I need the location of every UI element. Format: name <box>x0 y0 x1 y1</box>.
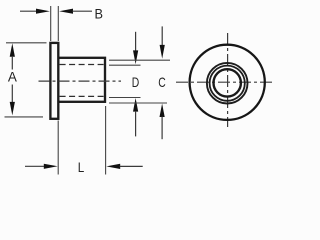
svg-text:A: A <box>8 69 18 85</box>
svg-text:L: L <box>78 159 85 175</box>
dim B extension right <box>57 6 59 41</box>
dim B right arrow tail <box>72 10 92 12</box>
dim D extension bottom <box>109 97 141 99</box>
dim L right arrow tail <box>120 165 143 167</box>
dim D extension top <box>109 64 141 66</box>
dim B left arrowhead <box>36 9 50 14</box>
side view: bushing body <box>58 58 105 102</box>
dim A line lower <box>11 85 13 103</box>
dim C bottom arrow tail <box>161 117 163 140</box>
dim C extension bottom <box>109 102 167 104</box>
svg-text:D: D <box>132 74 140 90</box>
bore hidden line bottom <box>60 95 104 97</box>
dim D bottom arrow tail <box>135 111 137 136</box>
dim B right arrowhead <box>59 9 73 14</box>
dim D top arrowhead <box>133 50 138 64</box>
front view bore circle <box>214 69 241 96</box>
dim C extension top <box>109 59 170 61</box>
dim A arrow up <box>10 43 15 57</box>
front view horizontal centerline <box>176 81 274 83</box>
dim C top arrow tail <box>161 26 163 45</box>
dim A extension top <box>6 42 47 44</box>
front view bore chamfer circle <box>210 66 245 101</box>
dim C bottom arrowhead <box>160 104 165 118</box>
front view body circle <box>207 63 248 104</box>
dim L extension left <box>57 121 59 175</box>
dim B left arrow tail <box>20 10 38 12</box>
front view vertical centerline <box>227 33 229 127</box>
dim L right arrowhead <box>106 164 120 169</box>
dim B extension left <box>50 6 52 41</box>
svg-text:B: B <box>95 6 104 22</box>
svg-text:C: C <box>158 74 166 90</box>
dim L left arrowhead <box>44 164 58 169</box>
dim C top arrowhead <box>160 45 165 59</box>
bore hidden line top <box>60 64 104 66</box>
dim A arrow down <box>10 102 15 116</box>
dim A line upper <box>11 56 13 70</box>
dim D bottom arrowhead <box>133 98 138 112</box>
dim A extension bottom <box>5 116 44 118</box>
dim D top arrow tail <box>135 32 137 51</box>
dim L extension right <box>105 106 107 175</box>
front view flange circle <box>190 45 265 120</box>
dim L left arrow tail <box>25 165 46 167</box>
side view: flange <box>50 43 58 119</box>
centerline side view <box>39 80 122 82</box>
